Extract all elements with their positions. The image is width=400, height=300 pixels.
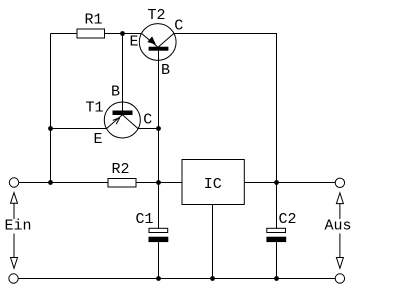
svg-text:R2: R2 (112, 161, 130, 178)
svg-text:T1: T1 (86, 100, 104, 117)
svg-text:C1: C1 (136, 211, 154, 228)
svg-text:C2: C2 (279, 211, 297, 228)
svg-text:B: B (111, 84, 120, 101)
svg-text:IC: IC (204, 176, 222, 193)
svg-text:C: C (143, 111, 152, 128)
svg-text:B: B (161, 62, 170, 79)
svg-text:T2: T2 (148, 7, 166, 24)
svg-text:C: C (174, 18, 183, 35)
svg-text:E: E (94, 131, 103, 148)
svg-text:E: E (130, 34, 139, 51)
svg-text:R1: R1 (85, 12, 103, 29)
svg-text:Aus: Aus (325, 218, 352, 235)
svg-text:Ein: Ein (5, 218, 32, 235)
